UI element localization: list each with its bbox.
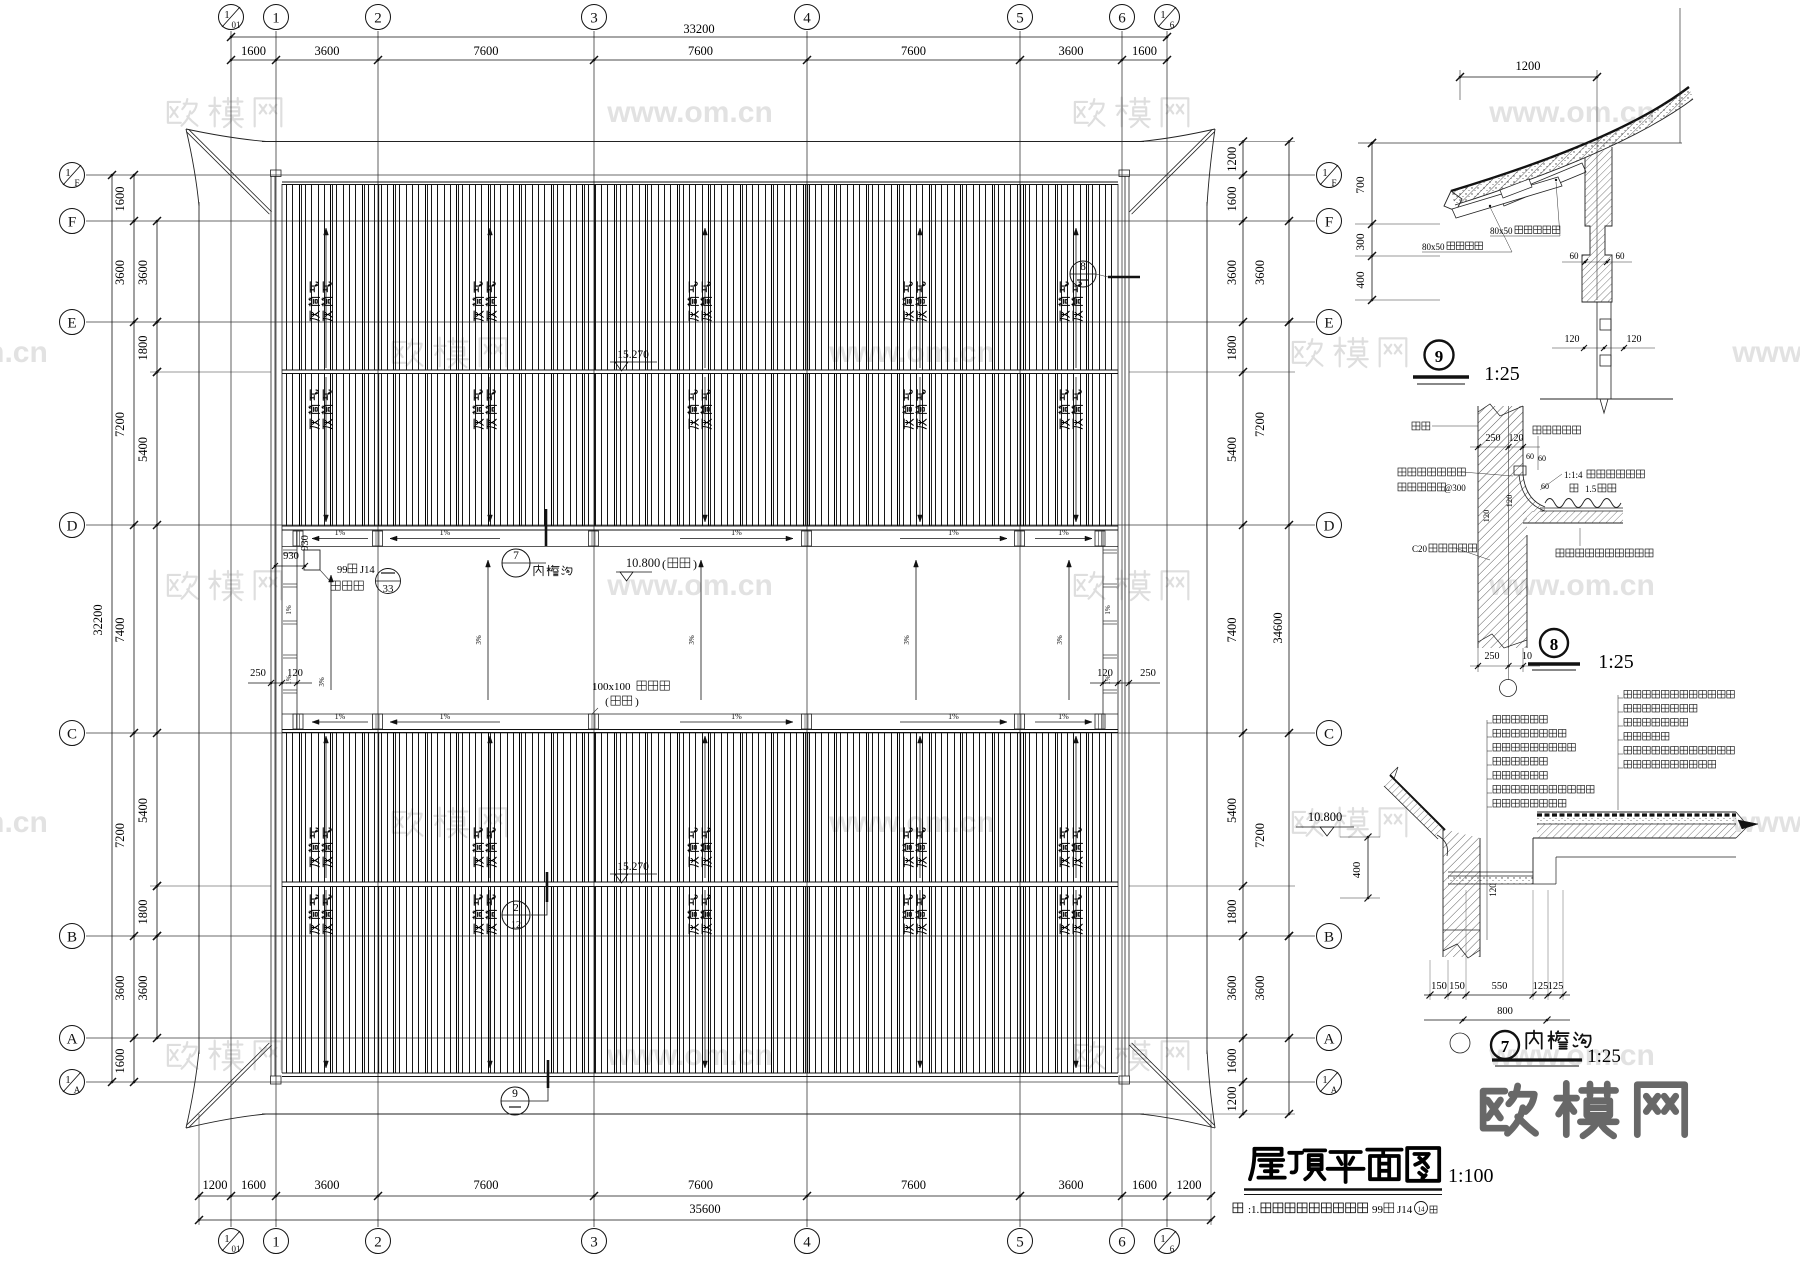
svg-text:): ): [635, 696, 639, 708]
svg-text:1%: 1%: [948, 528, 959, 537]
svg-text:3600: 3600: [113, 976, 127, 1001]
svg-text:120: 120: [1097, 668, 1113, 679]
tile field lower-top: [287, 733, 1112, 883]
corner flying eave top-left: [186, 129, 266, 142]
svg-text:15.270: 15.270: [617, 861, 649, 873]
svg-text:60: 60: [1570, 251, 1580, 261]
svg-text:10: 10: [1522, 651, 1532, 662]
svg-text:3%: 3%: [688, 635, 696, 645]
svg-text:1: 1: [224, 1233, 230, 1245]
svg-text:1: 1: [1322, 1074, 1328, 1086]
right side tile strip: [1102, 530, 1104, 730]
svg-text:@300: @300: [1444, 483, 1466, 493]
svg-text:80x50: 80x50: [1422, 242, 1445, 252]
svg-text:99: 99: [337, 565, 348, 576]
svg-text:3600: 3600: [1253, 976, 1267, 1001]
axis bubbles bottom: [219, 1229, 244, 1254]
slope arrows lower band: [312, 721, 368, 723]
svg-text:400: 400: [1351, 861, 1363, 878]
lower gutter band: [282, 713, 1118, 715]
detail 7 dim 400: [1367, 837, 1369, 898]
detail ref circle 33: [376, 569, 401, 594]
svg-text:1600: 1600: [113, 187, 127, 212]
svg-text:12: 12: [511, 920, 521, 931]
svg-text:1: 1: [65, 1074, 71, 1086]
right dimension line outer 34600: [1288, 142, 1290, 1115]
svg-text:15.270: 15.270: [617, 349, 649, 361]
top total dimension 33200: [231, 36, 1167, 38]
section cut 2/12: [546, 872, 549, 902]
svg-text:7200: 7200: [113, 412, 127, 437]
svg-text:120: 120: [287, 668, 303, 679]
svg-text:1:25: 1:25: [1587, 1046, 1621, 1067]
svg-text:32200: 32200: [91, 604, 105, 635]
svg-text:(: (: [605, 696, 609, 708]
detail 7 right slab layers: [1532, 838, 1534, 884]
svg-text:3600: 3600: [1225, 260, 1239, 285]
slope arrows upper band: [312, 538, 368, 540]
svg-text:01: 01: [232, 1244, 241, 1254]
svg-text:3600: 3600: [1253, 260, 1267, 285]
ridge extension lines right: [1129, 371, 1295, 373]
svg-text:1%: 1%: [948, 712, 959, 721]
detail 7 right label stack: [1617, 695, 1619, 810]
svg-text:7600: 7600: [901, 1178, 926, 1192]
detail 7 title nei yan gou: [1526, 1031, 1590, 1049]
roof top eave line: [262, 141, 1144, 143]
svg-text:5400: 5400: [1225, 437, 1239, 462]
svg-text::1.: :1.: [1248, 1204, 1260, 1216]
svg-text:1800: 1800: [1225, 336, 1239, 361]
svg-text:700: 700: [1355, 176, 1367, 194]
svg-text:7600: 7600: [688, 1178, 713, 1192]
svg-text:J14: J14: [1397, 1204, 1413, 1216]
svg-text:A: A: [1324, 1032, 1335, 1048]
svg-text:930: 930: [300, 535, 311, 551]
svg-text:F: F: [68, 215, 76, 231]
svg-text:1200: 1200: [203, 1178, 228, 1192]
detail 8 tile wave: [1545, 499, 1621, 508]
detail 8 wall outline: [1477, 406, 1479, 648]
bottom segment dimensions: [199, 1195, 1211, 1197]
svg-text:3: 3: [590, 11, 598, 27]
svg-text:F: F: [1331, 178, 1336, 188]
detail 8 gutter curve: [1523, 475, 1545, 507]
svg-text:3%: 3%: [1056, 635, 1064, 645]
svg-text:100x100: 100x100: [592, 681, 631, 693]
gray tube tile labels: [309, 282, 320, 321]
ridge extension lines left: [150, 371, 271, 373]
svg-text:D: D: [1324, 519, 1335, 535]
svg-text:A: A: [74, 1085, 81, 1095]
svg-text:7: 7: [513, 550, 519, 562]
svg-text:1800: 1800: [136, 336, 150, 361]
detail 8 callout circle: [1540, 629, 1568, 657]
svg-text:1: 1: [224, 9, 230, 21]
svg-text:1200: 1200: [1225, 147, 1239, 172]
tile field horizontal edges: [282, 181, 1118, 183]
svg-text:9: 9: [512, 1088, 518, 1100]
roof left eave line: [198, 202, 200, 1054]
svg-text:10.800: 10.800: [1308, 810, 1342, 824]
svg-text:7600: 7600: [474, 44, 499, 58]
detail 9 hatched column: [1582, 147, 1612, 302]
svg-text:3%: 3%: [475, 635, 483, 645]
svg-text:4: 4: [803, 11, 811, 27]
svg-text:1:25: 1:25: [1484, 363, 1520, 385]
svg-text:3600: 3600: [315, 1178, 340, 1192]
svg-text:9: 9: [1435, 347, 1444, 366]
roof bottom eave line: [262, 1113, 1144, 1115]
access hatch 99zheJ14: [304, 550, 320, 570]
detail 7 sloped slab: [1390, 775, 1445, 830]
right dimension line inner: [1242, 142, 1244, 1115]
section cut 7 nei yan gou: [545, 509, 548, 546]
top segment dimensions: [231, 59, 1167, 61]
lower ridge line 15.270: [282, 881, 1118, 883]
left sub segment dimensions: [156, 221, 158, 1038]
svg-text:C20: C20: [1412, 544, 1428, 554]
svg-text:120: 120: [1504, 495, 1514, 508]
detail 9 rafter layer: [1500, 163, 1586, 206]
svg-text:A: A: [1331, 1085, 1338, 1095]
svg-text:2: 2: [374, 1235, 382, 1251]
big logo ou mo wang: [1483, 1083, 1685, 1135]
svg-text:250: 250: [1485, 651, 1500, 662]
svg-text:1.5: 1.5: [1585, 484, 1597, 494]
svg-text:1200: 1200: [1225, 1087, 1239, 1112]
tile field lower-bottom: [287, 887, 1112, 1073]
detail 9 callout circle: [1425, 341, 1454, 370]
svg-text:1600: 1600: [241, 1178, 266, 1192]
svg-text:1200: 1200: [1177, 1178, 1202, 1192]
bottom total dimension 35600: [199, 1219, 1211, 1221]
left total dimension 32200: [111, 175, 113, 1082]
note line: [1233, 1203, 1243, 1213]
roof right eave line: [1206, 202, 1208, 1054]
svg-text:www.om.cn: www.om.cn: [606, 96, 773, 129]
svg-text:www.om.cn: www.om.cn: [0, 336, 48, 369]
corner flying eave bottom-left: [186, 1114, 266, 1128]
left side tile strip: [296, 530, 298, 730]
detail 9 vertical dims 700/300/400: [1371, 143, 1373, 300]
upper ridge line 15.270: [282, 369, 1118, 371]
svg-text:120: 120: [1488, 883, 1498, 897]
grid line rows: [86, 174, 1315, 176]
svg-text:1%: 1%: [285, 605, 293, 615]
svg-text:125: 125: [1548, 981, 1564, 992]
svg-text:B: B: [67, 930, 77, 946]
section cut 9: [547, 1060, 550, 1088]
left axis segment dimensions: [133, 175, 135, 1082]
svg-text:1%: 1%: [440, 712, 451, 721]
svg-text:7200: 7200: [1253, 412, 1267, 437]
svg-text:1: 1: [65, 167, 71, 179]
svg-text:250: 250: [250, 668, 266, 679]
detail 7 gutter floor: [1448, 871, 1533, 873]
upper gutter band: [282, 546, 1118, 548]
svg-text:60: 60: [1526, 452, 1534, 461]
detail 7 flashing curve: [1437, 835, 1448, 856]
corner flying eave top-right: [1140, 129, 1215, 142]
detail 9 dimension 1200: [1460, 76, 1597, 78]
svg-text:99: 99: [1372, 1204, 1384, 1216]
svg-text:1%: 1%: [731, 712, 742, 721]
svg-text:J14: J14: [360, 565, 375, 576]
svg-text:5: 5: [1016, 11, 1024, 27]
detail 8 wall break marks: [1478, 404, 1523, 416]
svg-text:B: B: [1324, 930, 1334, 946]
detail 7 small axis circle: [1450, 1033, 1470, 1053]
svg-text:7600: 7600: [688, 44, 713, 58]
axis bubbles top: [219, 5, 244, 30]
svg-text:1%: 1%: [335, 712, 346, 721]
svg-text:7600: 7600: [474, 1178, 499, 1192]
corner flying eave bottom-right: [1140, 1114, 1215, 1128]
svg-text:C: C: [1324, 727, 1334, 743]
right gable fascia: [1124, 176, 1126, 1076]
svg-text:1800: 1800: [136, 900, 150, 925]
water holes upper band: [293, 531, 303, 546]
detail 7 bottom dims: [1424, 994, 1570, 996]
svg-text:7400: 7400: [113, 618, 127, 643]
svg-text:2: 2: [513, 902, 519, 914]
svg-text:7400: 7400: [1225, 618, 1239, 643]
svg-text:1600: 1600: [1132, 1178, 1157, 1192]
svg-text:125: 125: [1533, 981, 1549, 992]
svg-text:3600: 3600: [136, 976, 150, 1001]
svg-text:7600: 7600: [901, 44, 926, 58]
svg-text:E: E: [67, 316, 76, 332]
svg-text:(: (: [662, 557, 666, 571]
svg-text:400: 400: [1355, 271, 1367, 289]
svg-text:150: 150: [1449, 981, 1465, 992]
svg-text:01: 01: [232, 20, 241, 30]
svg-text:2: 2: [374, 11, 382, 27]
svg-text:60: 60: [1616, 251, 1626, 261]
svg-text:1600: 1600: [1225, 1049, 1239, 1074]
svg-text:1%: 1%: [1104, 605, 1112, 615]
watermark row 1: [168, 98, 281, 128]
svg-text:7200: 7200: [113, 823, 127, 848]
svg-text:3%: 3%: [318, 677, 326, 687]
svg-text:1600: 1600: [113, 1049, 127, 1074]
detail 9 eave level line: [1358, 142, 1682, 144]
svg-text:6: 6: [1118, 11, 1126, 27]
svg-text:7200: 7200: [1253, 823, 1267, 848]
svg-text:1: 1: [1160, 1233, 1166, 1245]
svg-text:5: 5: [1016, 1235, 1024, 1251]
svg-text:250: 250: [1140, 668, 1156, 679]
svg-text:1600: 1600: [241, 44, 266, 58]
detail 8 labels: [1412, 422, 1430, 430]
tile field upper-top: [287, 185, 1112, 371]
svg-text:): ): [693, 557, 697, 571]
detail 8 wall hatch: [1478, 406, 1545, 648]
svg-text:1: 1: [1160, 9, 1166, 21]
svg-text:120: 120: [1509, 433, 1524, 444]
svg-text:1:25: 1:25: [1598, 651, 1634, 673]
svg-text:34600: 34600: [1271, 612, 1285, 643]
svg-text:1%: 1%: [1058, 712, 1069, 721]
svg-text:1%: 1%: [440, 528, 451, 537]
svg-text:60: 60: [1538, 454, 1546, 463]
svg-text:1: 1: [1322, 167, 1328, 179]
svg-text:7: 7: [1501, 1037, 1510, 1056]
grid line columns: [230, 31, 232, 1227]
svg-text:5400: 5400: [136, 437, 150, 462]
detail 9 curved roof slab: [1451, 87, 1689, 191]
left gable fascia: [270, 176, 272, 1076]
svg-text:3%: 3%: [903, 635, 911, 645]
detail 9 ground line: [1540, 398, 1673, 400]
svg-text:33200: 33200: [683, 22, 714, 36]
svg-text:1%: 1%: [335, 528, 346, 537]
svg-text:4: 4: [803, 1235, 811, 1251]
svg-text:6: 6: [1170, 20, 1175, 30]
svg-text:3600: 3600: [1059, 44, 1084, 58]
tile field upper-bottom: [287, 374, 1112, 527]
svg-text:120: 120: [1627, 334, 1642, 345]
svg-text:14: 14: [1418, 1206, 1426, 1214]
axis bubbles left: [60, 163, 85, 188]
svg-text:www.om.cn: www.om.cn: [0, 806, 48, 839]
flat area slope arrows: [487, 560, 489, 700]
svg-text:550: 550: [1492, 981, 1508, 992]
svg-text:930: 930: [283, 551, 299, 562]
svg-text:1%: 1%: [1058, 528, 1069, 537]
svg-text:1:1:4: 1:1:4: [1564, 470, 1583, 480]
svg-text:10.800: 10.800: [626, 556, 660, 570]
svg-text:3600: 3600: [1059, 1178, 1084, 1192]
svg-text:300: 300: [1355, 233, 1367, 251]
axis bubbles right: [1317, 163, 1342, 188]
detail 9 hanging rod: [1596, 302, 1598, 399]
svg-text:1%: 1%: [731, 528, 742, 537]
svg-text:33: 33: [383, 583, 395, 595]
svg-text:F: F: [74, 178, 79, 188]
svg-text:1: 1: [272, 1235, 280, 1251]
section cut 8 marker: [1070, 261, 1096, 287]
svg-text:8: 8: [1550, 635, 1559, 654]
svg-text:5400: 5400: [1225, 798, 1239, 823]
svg-text:3: 3: [590, 1235, 598, 1251]
svg-text:800: 800: [1497, 1006, 1513, 1017]
svg-text:C: C: [67, 727, 77, 743]
svg-text:6: 6: [1118, 1235, 1126, 1251]
detail 7 left label stack: [1486, 720, 1488, 940]
water holes lower band: [293, 714, 303, 729]
svg-text:3600: 3600: [315, 44, 340, 58]
svg-text:1600: 1600: [1225, 187, 1239, 212]
svg-text:3600: 3600: [136, 260, 150, 285]
detail 9 right border line: [1679, 8, 1681, 143]
svg-text:3600: 3600: [113, 260, 127, 285]
svg-text:150: 150: [1431, 981, 1447, 992]
svg-text:E: E: [1324, 316, 1333, 332]
main title wu ding ping mian tu: [1250, 1148, 1439, 1182]
svg-text:120: 120: [1481, 510, 1491, 523]
svg-text:1800: 1800: [1225, 900, 1239, 925]
svg-text:35600: 35600: [689, 1202, 720, 1216]
svg-text:D: D: [67, 519, 78, 535]
svg-text:1600: 1600: [1132, 44, 1157, 58]
detail 8 axis circle: [1500, 680, 1517, 697]
svg-text:6: 6: [1170, 1244, 1175, 1254]
svg-text:250: 250: [1486, 433, 1501, 444]
svg-text:1:100: 1:100: [1448, 1165, 1494, 1187]
svg-text:1: 1: [272, 11, 280, 27]
svg-text:F: F: [1325, 215, 1333, 231]
svg-text:8: 8: [1080, 261, 1086, 273]
svg-text:www.om.cn: www.om.cn: [1731, 336, 1800, 369]
svg-text:5400: 5400: [136, 798, 150, 823]
detail 7 gutter left wall: [1443, 829, 1480, 957]
svg-text:120: 120: [1565, 334, 1580, 345]
detail 7 callout circle 7: [1491, 1031, 1519, 1059]
detail 7 right end arrow: [1736, 812, 1748, 838]
svg-text:1200: 1200: [1516, 59, 1541, 73]
detail 8 roof slab: [1523, 522, 1623, 524]
svg-text:3600: 3600: [1225, 976, 1239, 1001]
svg-text:A: A: [67, 1032, 78, 1048]
tile field slope arrows: [325, 228, 327, 368]
